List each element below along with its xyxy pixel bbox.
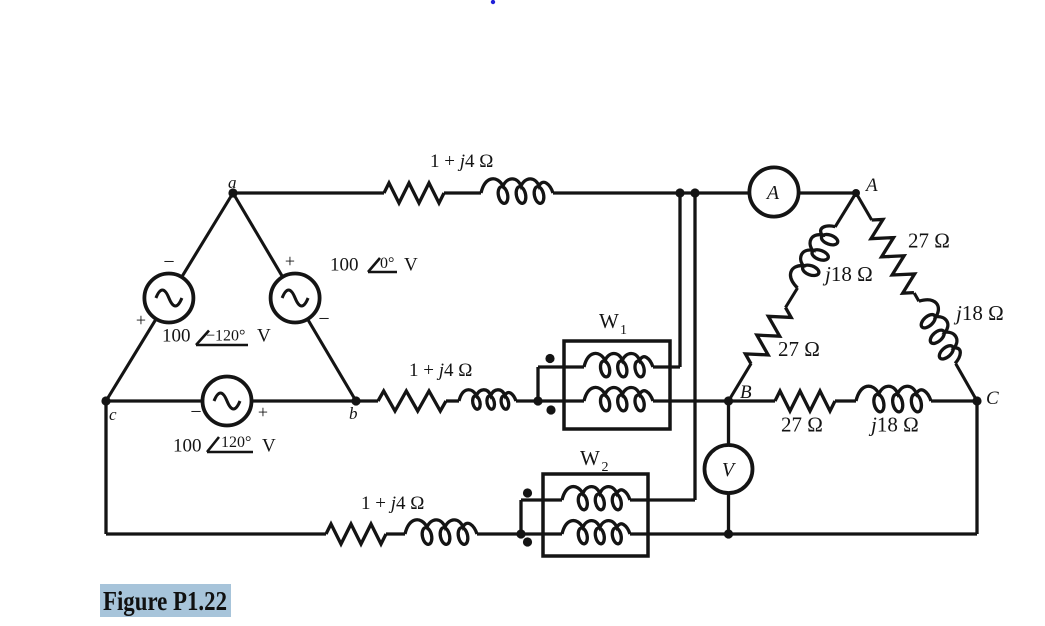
svg-text:V: V bbox=[262, 436, 276, 457]
svg-text:−: − bbox=[163, 251, 174, 273]
svg-text:A: A bbox=[864, 175, 878, 196]
svg-text:j18 Ω: j18 Ω bbox=[953, 301, 1004, 325]
svg-text:1 + j4 Ω: 1 + j4 Ω bbox=[409, 360, 472, 381]
svg-text:27 Ω: 27 Ω bbox=[778, 337, 820, 361]
svg-text:100: 100 bbox=[162, 326, 191, 347]
svg-text:27 Ω: 27 Ω bbox=[908, 229, 950, 253]
svg-text:1 + j4 Ω: 1 + j4 Ω bbox=[361, 493, 424, 514]
svg-text:j18 Ω: j18 Ω bbox=[822, 262, 873, 286]
svg-text:27 Ω: 27 Ω bbox=[781, 413, 823, 437]
svg-text:2: 2 bbox=[602, 460, 609, 475]
svg-text:C: C bbox=[986, 388, 999, 409]
svg-text:a: a bbox=[228, 173, 237, 192]
svg-text:V: V bbox=[404, 255, 418, 276]
svg-text:1: 1 bbox=[620, 323, 627, 338]
svg-text:Figure P1.22: Figure P1.22 bbox=[103, 586, 227, 616]
svg-text:W: W bbox=[580, 446, 600, 470]
svg-text:B: B bbox=[740, 382, 752, 403]
svg-text:c: c bbox=[109, 405, 117, 424]
svg-text:b: b bbox=[349, 404, 358, 423]
svg-text:V: V bbox=[257, 326, 271, 347]
svg-text:W: W bbox=[599, 309, 619, 333]
svg-text:0°: 0° bbox=[380, 255, 394, 272]
svg-text:100: 100 bbox=[173, 436, 202, 457]
svg-text:−: − bbox=[318, 308, 329, 330]
svg-text:−120°: −120° bbox=[206, 328, 245, 345]
svg-text:100: 100 bbox=[330, 255, 359, 276]
svg-text:+: + bbox=[258, 402, 268, 422]
svg-text:1 + j4 Ω: 1 + j4 Ω bbox=[430, 151, 493, 172]
svg-text:+: + bbox=[136, 310, 146, 330]
svg-text:−: − bbox=[190, 401, 201, 423]
svg-text:+: + bbox=[285, 251, 295, 271]
svg-text:A: A bbox=[765, 182, 780, 204]
svg-text:j18 Ω: j18 Ω bbox=[868, 413, 919, 437]
svg-text:120°: 120° bbox=[221, 434, 251, 451]
